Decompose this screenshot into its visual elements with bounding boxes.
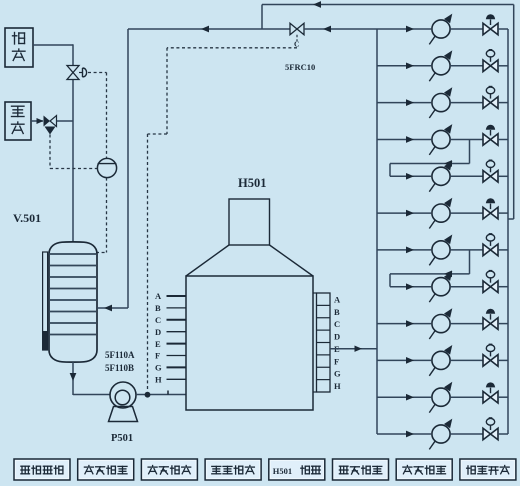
signal wire (dashed) oxygen actuator to instrument (49, 135, 51, 169)
valve actuator row 6 (490, 204, 492, 210)
wire circle to valve row 7 (450, 249, 483, 251)
control valve row 4 (483, 134, 491, 146)
svg-text:E: E (155, 339, 161, 349)
wire circle to valve row 11 (450, 396, 483, 398)
wire branch row 4 (377, 139, 431, 141)
instrument (pressure regulator) circle (97, 158, 116, 177)
button 分支温度 (141, 459, 197, 480)
svg-text:V.501: V.501 (13, 211, 41, 225)
valve actuator row 5 (490, 167, 492, 173)
wire circle to valve row 2 (450, 65, 483, 67)
svg-text:P501: P501 (111, 433, 133, 444)
valve XV (vent) with actuator D (67, 66, 79, 73)
regulator arrow row 10 (429, 367, 435, 376)
svg-text:5F110A: 5F110A (105, 350, 135, 360)
svg-text:B: B (155, 303, 161, 313)
oxygen control valve (44, 116, 51, 127)
button 历史记录 (396, 459, 452, 480)
burner stubs A-H (left) (167, 295, 187, 297)
wire branch row 12 (377, 433, 431, 435)
burner regulator circle row 7 (432, 241, 450, 259)
collection bus (right vertical) (507, 29, 509, 434)
control valve row 9 (483, 318, 491, 330)
button 趋势记录 (333, 459, 389, 480)
wire vent box to riser (33, 44, 73, 46)
signal wire (dashed) vessel top to return pipe (96, 252, 107, 254)
wire valve to collection bus row 11 (498, 396, 508, 398)
control valve row 12 (483, 428, 491, 440)
regulator arrow row 2 (429, 73, 435, 82)
flow arrow row 12 (406, 431, 414, 438)
level gauge on vessel (43, 252, 48, 350)
regulator arrow row 6 (429, 220, 435, 229)
wire valve to collection bus row 2 (498, 65, 508, 67)
burner regulator circle row 3 (432, 94, 450, 112)
signal wire (dashed) valve D to instrument (88, 72, 107, 74)
flow arrow row 4 (406, 136, 414, 143)
wire branch row 10 (377, 359, 431, 361)
regulator arrow row 11 (429, 404, 435, 413)
wire branch row 5 (loop fed) (390, 175, 431, 177)
flow arrow row 9 (406, 320, 414, 327)
wire furnace wall to cells (313, 292, 317, 294)
svg-text:D: D (155, 327, 161, 337)
wire valve to collection bus row 10 (498, 359, 508, 361)
svg-text:F: F (155, 351, 160, 361)
wire branch row 3 (377, 102, 431, 104)
svg-text:G: G (334, 369, 341, 379)
vessel V501 shell (49, 242, 97, 362)
control valve row 3 (483, 97, 491, 109)
signal wire (dashed) from valve 5FRC10 (167, 47, 297, 49)
svg-text:F: F (334, 356, 339, 366)
valve stem (dashed) (296, 35, 298, 41)
svg-text:C: C (294, 40, 299, 49)
wire valve to collection bus row 12 (498, 433, 508, 435)
wire circle to valve row 8 (450, 286, 483, 288)
coil outlet cells (right) (317, 293, 331, 392)
furnace stack (229, 199, 270, 245)
vent box 放空 (5, 28, 33, 67)
vessel inlet wire from return pipe (97, 307, 128, 309)
flow arrow row 2 (406, 62, 414, 69)
wire valve to collection bus row 6 (498, 212, 508, 214)
control valve row 5 (483, 171, 491, 183)
wire branch row 8 (loop fed) (390, 286, 431, 288)
flow arrow (37, 118, 44, 124)
svg-text:A: A (334, 294, 341, 304)
vessel trays (49, 253, 96, 255)
riser pipe from vent to vessel V501 (72, 44, 74, 66)
burner regulator circle row 5 (432, 167, 450, 185)
regulator arrow row 5 (429, 183, 435, 192)
vessel outlet wire down to pump (72, 362, 74, 395)
button 分支流量 (78, 459, 134, 480)
button H501联锁 (269, 459, 325, 480)
pump discharge wire to furnace (136, 394, 186, 396)
wire branch row 2 (377, 65, 431, 67)
valve actuator row 2 (490, 56, 492, 62)
furnace outlet E wire to branch bus (330, 348, 377, 350)
wire valve to collection bus row 1 (498, 28, 508, 30)
valve actuator row 7 (490, 240, 492, 246)
burner regulator circle row 4 (432, 130, 450, 148)
svg-text:H501: H501 (273, 466, 292, 476)
flow arrow row 7 (406, 247, 414, 254)
control valve row 6 (483, 207, 491, 219)
wire valve to collection bus row 3 (498, 102, 508, 104)
valve actuator row 10 (490, 351, 492, 357)
burner regulator circle row 8 (432, 278, 450, 296)
flow arrow row 6 (406, 210, 414, 217)
return pipe down left of furnace (127, 29, 129, 308)
control valve row 8 (483, 281, 491, 293)
button 仪量开关 (460, 459, 516, 480)
wire branch row 1 (377, 28, 431, 30)
wire oxygen box to valve (31, 120, 43, 122)
wire valve to collection bus row 5 (498, 175, 508, 177)
wire valve to collection bus row 8 (498, 286, 508, 288)
supply wire to valve 5FRC10 (128, 28, 290, 30)
pump P501 (110, 382, 136, 408)
flow arrow row 5 (406, 173, 414, 180)
wire circle to valve row 6 (450, 212, 483, 214)
wire oxygen valve to riser (57, 120, 74, 122)
wire valve to collection bus row 7 (498, 249, 508, 251)
control valve 5FRC10 (290, 23, 297, 35)
signal junction dot on pump discharge (145, 392, 151, 398)
signal wire (dashed) instrument down to level line (106, 178, 108, 253)
svg-text:A: A (155, 291, 162, 301)
burner regulator circle row 9 (432, 315, 450, 333)
wire branch row 9 (377, 323, 431, 325)
burner regulator circle row 6 (432, 204, 450, 222)
wire valve to branch bus (304, 28, 377, 30)
bypass loop rows 7-8 (469, 250, 471, 274)
wire circle to valve row 1 (450, 28, 483, 30)
flow arrow row 1 (406, 26, 414, 33)
regulator arrow row 1 (429, 36, 435, 45)
return header (top wire) (262, 4, 514, 6)
svg-text:B: B (334, 307, 340, 317)
wire valve to collection bus row 9 (498, 323, 508, 325)
svg-text:H: H (155, 375, 162, 385)
junction tick (167, 391, 169, 395)
burner regulator circle row 11 (432, 388, 450, 406)
flow arrow row 11 (406, 394, 414, 401)
burner regulator circle row 10 (432, 351, 450, 369)
flow arrow row 8 (406, 283, 414, 290)
button 燃油罐组 (14, 459, 70, 480)
furnace body (186, 276, 313, 410)
wire circle to valve row 9 (450, 323, 483, 325)
bypass loop rows 4-5 (469, 140, 471, 164)
wire branch row 6 (377, 212, 431, 214)
wire circle to valve row 10 (450, 359, 483, 361)
regulator arrow row 12 (429, 441, 435, 450)
valve actuator row 4 (490, 130, 492, 136)
svg-text:H501: H501 (238, 176, 266, 190)
flow arrow row 10 (406, 357, 414, 364)
control valve row 7 (483, 244, 491, 256)
svg-text:G: G (155, 363, 162, 373)
regulator arrow row 9 (429, 330, 435, 339)
regulator arrow row 8 (429, 294, 435, 303)
regulator arrow row 7 (429, 257, 435, 266)
burner regulator circle row 2 (432, 57, 450, 75)
burner regulator circle row 1 (432, 20, 450, 38)
furnace hood (186, 245, 229, 276)
valve actuator row 11 (490, 388, 492, 394)
wire branch row 7 (377, 249, 431, 251)
regulator arrow row 3 (429, 109, 435, 118)
valve actuator row 1 (490, 20, 492, 26)
flow arrow row 3 (406, 99, 414, 106)
svg-text:H: H (334, 381, 341, 391)
button 总量温度 (205, 459, 261, 480)
svg-text:C: C (155, 315, 161, 325)
wire right edge down (513, 5, 515, 220)
oxygen box 氧气 (5, 102, 31, 140)
valve actuator row 9 (490, 314, 492, 320)
wire circle to valve row 4 (450, 139, 483, 141)
control valve row 10 (483, 355, 491, 367)
svg-text:5FRC10: 5FRC10 (285, 62, 315, 72)
wire circle to valve row 12 (450, 433, 483, 435)
svg-text:D: D (334, 332, 340, 342)
valve actuator row 8 (490, 277, 492, 283)
wire valve to collection bus row 4 (498, 139, 508, 141)
burner regulator circle row 12 (432, 425, 450, 443)
svg-text:5F110B: 5F110B (105, 363, 134, 373)
valve actuator row 12 (490, 425, 492, 431)
svg-text:C: C (334, 319, 340, 329)
actuator wedge below oxygen valve (45, 127, 56, 135)
control valve row 1 (483, 23, 491, 35)
wire circle to valve row 5 (450, 175, 483, 177)
wire connector at x262 (261, 5, 263, 30)
wire branch row 11 (377, 396, 431, 398)
branch bus (left vertical) (376, 29, 378, 434)
valve actuator row 3 (490, 93, 492, 99)
control valve row 2 (483, 60, 491, 72)
control valve row 11 (483, 391, 491, 403)
regulator arrow row 4 (429, 146, 435, 155)
wire circle to valve row 3 (450, 102, 483, 104)
